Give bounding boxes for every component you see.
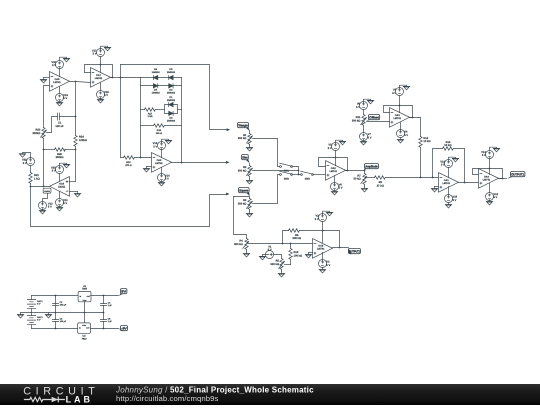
ground at capacitor midpoint [45,313,52,319]
potentiometer R1 [249,131,251,134]
svg-text:5 V: 5 V [356,106,360,109]
wire R24 to comparator input [75,147,77,182]
resistor R12 [419,137,422,148]
junction OA6 output [75,81,77,83]
capacitor C5 [103,313,105,320]
wire OA7 output [111,77,121,79]
svg-text:500 kΩ: 500 kΩ [238,202,247,205]
wire R4 wiper to OA8 inverting input [249,243,313,245]
svg-text:200kΩ: 200kΩ [32,132,40,135]
junction U1 common at mid rail [84,312,86,314]
wire V20 to OA9 V+ pin [59,174,61,182]
svg-text:5 V: 5 V [63,97,67,100]
ground at OA5 noninverting input [143,167,150,173]
junction V9 wire crossing feedback [399,105,401,107]
svg-text:C5: C5 [108,318,112,321]
capacitor C1 [58,113,60,120]
svg-text:LM741: LM741 [155,162,163,165]
junction OA5 output/diode rail [181,162,183,164]
diode D4 [153,84,157,88]
svg-text:500 kΩ: 500 kΩ [293,237,302,240]
svg-text:5 V: 5 V [165,178,169,181]
svg-text:5 V: 5 V [453,199,457,202]
wire V22 to R21 [30,166,32,173]
wire R23 bottom down left rail [43,139,45,187]
ground above V2 [323,211,333,216]
ground below R4 [243,252,250,258]
voltage source V18b [445,160,453,168]
resistor R9 [367,177,375,179]
wire OA7 feedback loop [85,65,113,78]
junction C2 bottom [55,312,57,314]
wire OA7 V- pin to V18 [100,83,102,91]
junction V2 wire crossing feedback [322,230,324,232]
svg-text:5 V: 5 V [441,164,445,167]
wire OA9 plus input to right rail [70,181,76,183]
voltage source V18 [97,91,105,99]
voltage source V2 [319,214,327,222]
svg-text:D6: D6 [154,68,158,71]
net arrow Square [226,193,230,196]
voltage regulator U2 7912 [78,323,91,333]
ground at battery midpoint [17,313,24,319]
wire R2 wiper to switch node [253,170,299,172]
wire BAT1 bottom lead [31,309,33,313]
ground above V17 [101,46,111,51]
junction R26 right [75,149,77,151]
wire OA9 output to left node [31,186,50,188]
capacitor C2 [55,296,57,304]
potentiometer R11 [362,115,365,126]
voltage source V13 [39,202,47,210]
svg-text:27 kΩ: 27 kΩ [377,184,384,187]
wire OA6 inverting input [44,77,50,79]
voltage source V4 [397,130,405,138]
diode D5 [169,76,173,80]
wire supply mid rail [21,312,104,314]
svg-text:SW2: SW2 [284,177,290,180]
flag Sine [242,155,249,160]
junction V17 wire crossing feedback [100,64,102,66]
wire outer left rail [120,65,122,158]
wire OA6 noninverting input down to R23 [44,86,50,128]
junction C3 bottom [55,328,57,330]
svg-text:100 Ω: 100 Ω [156,132,162,135]
junction R21/OA9 output [30,186,32,188]
voltage source V5 [332,143,340,151]
wire BAT1 top lead [31,296,33,300]
wire C1 to right rail [60,116,76,118]
junction left rail at OA9 output row [43,186,45,188]
svg-text:Amplitude: Amplitude [365,164,378,168]
potentiometer R4 [245,239,248,250]
wire R11 to V7 [363,126,365,133]
voltage source V15 [158,142,166,150]
svg-text:5 V: 5 V [268,249,272,252]
ground below V13 [39,209,46,215]
voltage source V1 [266,251,274,259]
wire R23 wiper to C1 [47,117,58,133]
antiparallel diode pair box [165,105,178,114]
svg-text:R16: R16 [157,129,162,132]
label box at OA9 output [43,188,51,193]
voltage source V12 [486,193,494,201]
ground above V15 [162,139,172,144]
svg-text:1N4002: 1N4002 [167,91,176,94]
wire supply top rail [32,295,79,297]
ground below V19 [445,203,452,209]
net arrow Sine [226,161,230,164]
wire OA3 output to R12 [410,118,421,137]
wire BAT2 bottom lead [31,325,33,329]
wire OA2 output to R7 [346,170,365,172]
ground above V22 [19,153,30,159]
ground at OA8 noninverting input [305,253,312,259]
ground below V4 [397,138,404,144]
svg-text:Square: Square [239,188,248,192]
wire BAT2 top lead [31,313,33,316]
voltage source V6 [331,183,339,191]
ground below V3 [319,268,326,274]
svg-text:5 V: 5 V [52,64,56,67]
junction Sine at switch column [298,170,300,172]
svg-text:500 kΩ: 500 kΩ [238,137,247,140]
ground below V14 [158,181,165,187]
ground at V1 [259,255,266,260]
wire OA9 V- pin to V11 [59,192,61,199]
svg-text:LAB: LAB [66,394,93,404]
op-amp OA9 comparator [50,177,70,197]
potentiometer R5 [280,259,283,270]
svg-text:9 V: 9 V [37,303,41,306]
svg-text:5 V: 5 V [23,162,27,165]
svg-text:LM741: LM741 [483,179,491,182]
wire R21 to output node [30,184,32,187]
op-amp OA6 [50,72,70,92]
svg-text:LM741: LM741 [95,77,103,80]
svg-text:5 V: 5 V [153,145,157,148]
svg-text:100 µF: 100 µF [60,304,67,307]
resistor R21 [29,173,32,184]
junction R13 at OA1 output [464,182,466,184]
wire OA6 output to OA7 noninverting input [70,82,91,83]
svg-text:5 V: 5 V [104,94,108,97]
wire summing node to OA1 inverting input [421,177,439,179]
svg-text:U1: U1 [83,285,87,288]
diode D2 [169,111,173,115]
svg-text:Triangle: Triangle [238,123,248,127]
wire R5 to ground [281,270,283,272]
ground above V8 [364,99,374,104]
voltage source V10 [56,61,64,69]
ground below V16 [56,101,63,107]
voltage source V13b [486,151,494,159]
wire diode row 2 [141,85,182,87]
resistor R6 feedback [283,231,289,244]
svg-text:50 kΩ: 50 kΩ [354,178,361,181]
resistor R15 [121,157,124,159]
wire OA1 V- pin to V19 [448,187,450,196]
junction C1/right rail [75,116,77,118]
junction V13b wire crossing feedback [489,168,491,170]
junction OA7 feedback at output [112,77,114,79]
wire Square net to arrow [31,187,227,227]
svg-text:LM311: LM311 [58,186,66,189]
svg-text:SW3: SW3 [305,177,311,180]
flag 9V output [121,289,127,294]
voltage source V20 [56,166,64,174]
junction R9/R12 summing node [420,177,422,179]
svg-text:5 V: 5 V [93,53,97,56]
svg-text:OUTPUT1: OUTPUT1 [511,172,524,176]
wire supply bottom rail [32,328,78,330]
wire U2 common pin [84,313,86,323]
svg-text:LM741: LM741 [442,182,450,185]
wire V1 negative lead [263,254,267,256]
wire V1 to R5 [274,255,282,259]
ground below R5 [278,272,285,278]
flag Triangle [238,123,249,128]
svg-text:1 µF: 1 µF [108,320,113,323]
junction R26 left [43,149,45,151]
svg-text:500 kΩ: 500 kΩ [234,243,243,246]
svg-text:1 kΩ: 1 kΩ [147,115,152,118]
wire V10 to OA6 V+ pin [59,68,61,77]
svg-text:9V: 9V [121,289,127,293]
wire diode block left rail [140,78,142,158]
svg-text:7912: 7912 [81,337,87,340]
ground below V12 [486,200,493,206]
voltage source V3 [319,260,327,268]
junction C4 bottom at mid rail [103,312,105,314]
wire R4 to ground [246,250,248,252]
svg-text:500 kΩ: 500 kΩ [270,263,279,266]
svg-text:1N4002: 1N4002 [167,99,176,102]
junction R15/diode rail [140,157,142,159]
wire V17 to OA7 V+ pin [100,57,102,73]
op-amp OA8 output2 [313,239,333,259]
switch SW2 [280,174,282,176]
svg-text:1N4002: 1N4002 [167,71,176,74]
wire label box to V13 [43,194,48,203]
wire R3 wiper to SW2 [253,175,281,204]
junction OA4 feedback at output [502,178,504,180]
wire right rail OA6 output to R24 [75,82,77,136]
wire OA1 noninverting input [435,186,439,188]
svg-text:Sine: Sine [242,155,247,159]
svg-text:1N4002: 1N4002 [152,71,161,74]
voltage source V16 [56,94,64,102]
svg-text:5 V: 5 V [493,196,497,199]
wire V18b to OA1 V+ pin [448,168,450,178]
voltage source V17 [97,49,105,57]
wire OA3 feedback loop [384,106,413,118]
wire V8 to R11 [363,110,365,115]
svg-text:D3: D3 [169,88,173,91]
svg-text:BAT2: BAT2 [37,316,43,319]
battery BAT2 [27,316,35,325]
capacitor C4 [103,296,105,304]
svg-text:Offset: Offset [369,115,379,119]
wire OA6 V- pin to V16 [59,87,61,94]
wire V15 to OA5 V+ pin [161,149,163,158]
resistor R24 [74,136,77,147]
junction at SW3 input [298,174,300,176]
resistor R26 [44,149,55,151]
junction R13 at OA1 input [432,177,434,179]
ground below R1 [246,146,253,152]
switch SW3 [301,174,303,176]
svg-text:5 V: 5 V [404,134,408,137]
wire OA9 minus input [70,191,78,193]
ground above V5 [336,140,346,145]
ground at OA6 inverting input [40,78,47,84]
diode D1 [169,103,173,107]
svg-text:50 kΩ: 50 kΩ [444,144,451,147]
op-amp OA3 [390,108,410,128]
voltage source V7 [360,133,368,141]
svg-text:1N4002: 1N4002 [167,120,176,123]
voltage regulator U1 7805 [78,291,91,301]
flag OUTPUT2 [349,249,361,254]
svg-text:SW1: SW1 [284,169,290,172]
junction OA7 output node [120,77,122,79]
wire V2 to OA8 V+ pin [322,222,324,243]
op-amp OA2 [326,161,346,181]
svg-text:5 V: 5 V [328,147,332,150]
potentiometer R3 [234,197,250,199]
svg-text:LM741: LM741 [393,117,401,120]
wire Square node to R4 [234,197,247,239]
svg-text:C4: C4 [108,301,112,304]
wire OA8 noninverting input [309,252,313,254]
wire top line to Triangle arrow [121,65,227,130]
wire SW2 to SW3 [293,174,301,176]
wire OA5 output Sine line [172,162,227,164]
svg-text:1N4002: 1N4002 [152,91,161,94]
wire R1 to ground [249,145,251,146]
svg-text:D5: D5 [169,68,173,71]
wire OA1 output to OA4 [459,182,479,184]
wire OA8 V- pin to V3 [322,253,324,261]
flag Offset [369,115,380,120]
svg-text:100kΩ: 100kΩ [79,139,87,142]
svg-text:200kΩ: 200kΩ [56,156,64,159]
svg-text:1 µF: 1 µF [108,304,113,307]
capacitor C3 [55,313,57,320]
wire R1 wiper to SW1 [253,139,281,167]
junction OA3 feedback at output [412,117,414,119]
junction R6 at OA8 output [339,247,341,249]
wire R3 to ground [249,210,251,212]
ground above V10 [60,57,70,62]
svg-text:5 V: 5 V [63,202,67,205]
wire V9 to OA3 V+ pin [399,96,401,113]
wire OA7 output to diode row 1 [121,77,141,79]
flag OUTPUT1 [511,172,525,177]
svg-text:500 kΩ: 500 kΩ [238,169,247,172]
wire R12 to summing node [420,148,422,178]
op-amp OA5 [152,153,172,173]
wire diode row 4 with R16 [141,125,154,127]
flag Square [239,188,250,193]
wire R2 to ground [249,177,251,179]
svg-text:LM741: LM741 [53,81,61,84]
resistor R10 [290,244,292,249]
wire diode row 1 [141,77,182,79]
svg-text:LM741: LM741 [317,248,325,251]
voltage source V14 [158,174,166,182]
svg-text:C3: C3 [60,317,64,320]
svg-text:100 kΩ: 100 kΩ [294,254,303,257]
svg-text:5 V: 5 V [326,264,330,267]
voltage source V9 [396,88,404,96]
wire V5 to OA2 V+ pin [335,151,337,166]
svg-text:5 V: 5 V [52,170,56,173]
battery BAT1 [27,300,35,309]
ground below R7 [361,187,368,193]
svg-text:http://circuitlab.com/cmqnb9s: http://circuitlab.com/cmqnb9s [116,394,219,403]
wire SW1 to SW3 column [293,167,299,175]
ground at OA1 noninverting input [431,187,438,193]
svg-text:D2: D2 [169,117,173,120]
wire R11 wiper to OA3 input [367,121,390,123]
svg-text:5 V: 5 V [48,206,52,209]
wire R5 wiper to R10 [285,264,291,266]
wire diode row 3 with R17 [141,109,145,111]
svg-text:C2: C2 [60,301,64,304]
wire OA5 noninverting input [147,166,152,168]
junction R6 at inverting node [282,243,284,245]
svg-text:9 V: 9 V [37,319,41,322]
ground below V7 [360,140,367,146]
diode D6 [153,76,157,80]
junction OA2 output at R7 [364,170,366,172]
svg-text:5 V: 5 V [339,187,343,190]
ground above V13b [490,147,500,152]
junction C4 top [103,295,105,297]
wire U1 common pin [84,302,86,313]
svg-text:1 kΩ: 1 kΩ [34,177,40,180]
svg-text:LM311: LM311 [44,190,50,193]
op-amp OA7 [91,68,111,88]
svg-text:D4: D4 [154,88,158,91]
svg-text:R17: R17 [148,112,153,115]
svg-text:470 Ω: 470 Ω [125,164,131,167]
ground above V9 [400,85,410,90]
svg-text:5 V: 5 V [315,218,319,221]
wire V13b to OA4 V+ pin [489,158,491,175]
op-amp OA4 [479,169,499,189]
svg-text:100 nF: 100 nF [55,125,64,128]
svg-text:5 V: 5 V [368,136,372,139]
ground at OA9 minus input [74,192,81,198]
ground above V20 [60,163,70,168]
voltage source V8 [360,102,368,110]
wire U1 output [91,295,119,297]
ground below R3 [246,212,253,218]
svg-text:5 V: 5 V [392,92,396,95]
op-amp OA1 [439,173,459,193]
svg-text:U2: U2 [83,335,87,338]
wire OA4 feedback loop [473,169,503,179]
ground below V6 [331,190,338,196]
junction V5 wire crossing feedback [335,157,337,159]
ground above V18b [449,157,459,162]
wire R7 to ground [364,185,366,187]
svg-text:LM741: LM741 [329,170,337,173]
svg-text:500 kΩ: 500 kΩ [352,119,361,122]
